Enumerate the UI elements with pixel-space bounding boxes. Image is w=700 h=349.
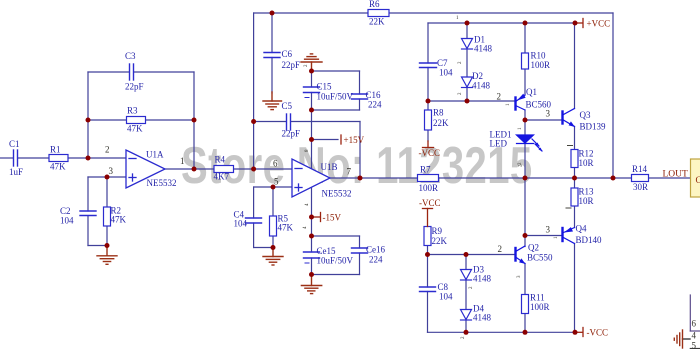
op-amp U1A [126, 150, 165, 188]
svg-text:224: 224 [369, 255, 383, 265]
svg-text:C3: C3 [125, 51, 136, 61]
svg-text:+15V: +15V [344, 135, 365, 145]
LED LED1 [517, 135, 543, 152]
diode D2 [462, 77, 473, 88]
wire Q2 emitter to R11 [524, 264, 526, 295]
capacitor C4 [246, 217, 262, 219]
svg-text:22pF: 22pF [125, 82, 144, 92]
wire Ce block bottom row [312, 274, 360, 276]
resistor R13 [571, 188, 578, 206]
ground G5 under Ce15 block [301, 275, 321, 294]
wire R11 to bottom rail [524, 314, 526, 333]
watermark [181, 140, 533, 192]
wire Q4 collector down [574, 244, 576, 333]
svg-text:R13: R13 [579, 187, 595, 197]
svg-text:224: 224 [368, 100, 382, 110]
wire C7 vertical [427, 23, 429, 63]
svg-text:1: 1 [518, 127, 523, 130]
svg-text:U1B: U1B [321, 162, 338, 172]
svg-text:22K: 22K [432, 236, 448, 246]
wire C2 branch vertical [87, 177, 89, 211]
svg-text:C1: C1 [9, 139, 20, 149]
svg-text:3: 3 [546, 225, 551, 235]
svg-text:R1: R1 [50, 145, 61, 155]
wire C5 to pin7 vertical [359, 122, 361, 179]
wire Q4 base row [525, 235, 562, 237]
svg-text:104: 104 [234, 219, 248, 229]
ground G4 above C15 inverted [301, 54, 322, 71]
wire R9 vertical [427, 246, 429, 255]
wire R13 to Q4 emitter [574, 206, 576, 228]
svg-text:6: 6 [692, 319, 697, 329]
wire feedback drop right [612, 13, 614, 178]
wire connector pin5 stub [690, 348, 700, 349]
ground G2 under C6 [263, 92, 282, 110]
svg-text:C5: C5 [282, 101, 293, 111]
power flag -VCC under R8 [423, 141, 434, 148]
svg-text:1: 1 [456, 16, 459, 21]
wire pin4 vertical [311, 188, 313, 236]
svg-text:10R: 10R [579, 196, 594, 206]
svg-text:NE5532: NE5532 [147, 178, 177, 188]
svg-text:NE5532: NE5532 [322, 189, 352, 199]
wire LED column [524, 120, 526, 135]
svg-text:100R: 100R [530, 302, 550, 312]
wire D3 D4 column [465, 255, 467, 270]
svg-text:104: 104 [439, 68, 453, 78]
wire connector box left edge [689, 295, 691, 331]
svg-text:BC550: BC550 [527, 253, 553, 263]
svg-text:C16: C16 [366, 90, 382, 100]
transistor Q1 [516, 94, 526, 110]
resistor R5 [270, 216, 277, 236]
wire R1 to U1A pin2 [68, 157, 126, 159]
resistor R6 [368, 10, 389, 17]
wire +VCC rail [428, 22, 575, 24]
svg-text:22pF: 22pF [282, 60, 301, 70]
svg-text:1: 1 [506, 103, 511, 106]
svg-text:4148: 4148 [473, 274, 492, 284]
capacitor Ce16 [352, 247, 368, 249]
svg-text:D2: D2 [472, 71, 483, 81]
svg-text:Q3: Q3 [580, 110, 591, 120]
svg-text:R9: R9 [432, 226, 443, 236]
svg-text:104: 104 [60, 216, 74, 226]
svg-text:30R: 30R [633, 182, 648, 192]
wire C15 vertical [311, 71, 313, 87]
transistor Q3 [563, 109, 575, 127]
svg-text:3: 3 [517, 275, 522, 278]
resistor R3 [127, 117, 146, 124]
resistor R1 [49, 155, 68, 162]
svg-text:2: 2 [461, 336, 466, 339]
svg-text:8: 8 [305, 149, 310, 152]
svg-text:BD139: BD139 [580, 122, 607, 132]
wire C4 branch vertical [253, 187, 255, 218]
resistor R9 [424, 227, 431, 246]
svg-text:5: 5 [274, 177, 279, 187]
wire connector box bottom edge [690, 330, 700, 332]
svg-text:47K: 47K [50, 162, 66, 172]
pin mark 2 Q4 emitter rotated [566, 207, 571, 209]
wire node A vertical to top rail [253, 13, 255, 169]
svg-text:4148: 4148 [473, 313, 492, 323]
wire pin3 row [88, 176, 126, 178]
svg-text:R4: R4 [215, 155, 226, 165]
wire D1 D2 column [466, 23, 468, 39]
capacitor C7 [420, 62, 437, 64]
svg-text:2: 2 [304, 64, 309, 67]
svg-text:7: 7 [347, 167, 352, 177]
connector J1 yellow box [691, 159, 700, 197]
svg-text:C6: C6 [282, 49, 293, 59]
wire lower bias row [428, 254, 515, 256]
wire C1 to R1 [18, 157, 49, 159]
svg-text:2: 2 [497, 92, 502, 102]
wire main mid row R7 to bases [439, 177, 691, 179]
wire input left [0, 157, 13, 159]
svg-text:+VCC: +VCC [587, 19, 611, 29]
svg-text:R10: R10 [531, 51, 547, 61]
wire U1B output pin7 [330, 177, 418, 179]
wire Ce15 vertical [311, 236, 313, 252]
resistor R4 [214, 166, 234, 173]
wire R12 R13 through node [574, 168, 576, 189]
wire upper bias row [428, 100, 515, 102]
ground G6 sideways bottom right [674, 330, 690, 348]
wire Ce block top row [312, 235, 360, 237]
svg-text:2: 2 [458, 92, 463, 95]
svg-text:4: 4 [692, 331, 697, 341]
wire R3 row right [146, 119, 195, 121]
wire C4 bottom to R5 node [254, 247, 273, 249]
svg-text:Ce15: Ce15 [317, 246, 336, 256]
op-amp U1B [292, 159, 330, 197]
wire R4 to U1B pin6 [234, 168, 293, 170]
svg-text:Q1: Q1 [526, 87, 537, 97]
svg-text:BD140: BD140 [576, 235, 603, 245]
svg-text:2: 2 [105, 145, 110, 155]
svg-text:4: 4 [303, 226, 308, 229]
svg-text:C2: C2 [60, 206, 71, 216]
wire Q1 collector down [524, 110, 526, 120]
wire C8 vertical [427, 255, 429, 288]
svg-text:3: 3 [109, 166, 114, 176]
wire feedback right vertical [193, 72, 195, 169]
svg-text:22pF: 22pF [282, 129, 301, 139]
svg-text:47K: 47K [127, 124, 143, 134]
wire C6 vertical [271, 13, 273, 53]
svg-text:C7: C7 [437, 58, 448, 68]
svg-text:R7: R7 [420, 165, 431, 175]
wire R2 vertical [106, 177, 108, 207]
svg-text:R14: R14 [632, 164, 648, 174]
svg-text:10R: 10R [579, 158, 594, 168]
wire C15 block top row [312, 70, 360, 72]
transistor Q2 [516, 246, 526, 264]
svg-text:C8: C8 [438, 282, 449, 292]
pin mark 2 Q3 emitter rotated [568, 145, 573, 147]
wire R8 vertical [427, 101, 429, 110]
diode D4 [461, 310, 472, 321]
wire top rail right [389, 12, 613, 14]
svg-text:-VCC: -VCC [419, 198, 441, 208]
capacitor C3 [129, 64, 131, 80]
svg-text:100R: 100R [531, 60, 551, 70]
capacitor C8 [420, 286, 436, 288]
svg-text:1uF: 1uF [9, 167, 23, 177]
wire pin8 vertical [311, 110, 313, 168]
resistor R8 [425, 110, 432, 130]
diode D3 [461, 270, 472, 281]
capacitor C1 [13, 150, 15, 166]
resistor R11 [522, 295, 529, 314]
svg-text:R3: R3 [127, 106, 138, 116]
resistor R2 [104, 207, 111, 226]
wire Q3 emitter to R12 [574, 127, 576, 150]
capacitor C15 [304, 86, 320, 88]
capacitor C16 [352, 93, 368, 95]
svg-text:R6: R6 [369, 0, 380, 9]
capacitor Ce15 [304, 251, 320, 253]
power flag -VCC above R9 [423, 209, 433, 227]
svg-text:2: 2 [458, 61, 463, 64]
svg-text:2: 2 [498, 244, 503, 254]
svg-text:C15: C15 [317, 82, 333, 92]
svg-text:104: 104 [439, 292, 453, 302]
svg-text:3: 3 [546, 109, 551, 119]
svg-text:-15V: -15V [323, 213, 342, 223]
wire C16 vertical [359, 71, 361, 94]
svg-text:22K: 22K [433, 118, 449, 128]
svg-text:LED: LED [490, 139, 508, 149]
svg-text:Q2: Q2 [528, 243, 539, 253]
wire C15 block bottom row [312, 109, 360, 111]
svg-text:4: 4 [305, 203, 310, 206]
wire Q3 base row [525, 119, 562, 121]
wire +15V tap [312, 139, 339, 141]
power flag +15V [340, 135, 342, 144]
svg-text:R11: R11 [530, 293, 545, 303]
wire U1A output [165, 168, 214, 170]
wire bottom rail [428, 331, 576, 333]
transistor Q4 [563, 227, 575, 243]
power flag -15V [312, 213, 321, 222]
svg-text:-VCC: -VCC [419, 148, 441, 158]
resistor R12 [571, 150, 578, 168]
svg-text:6: 6 [273, 159, 278, 169]
svg-text:Q4: Q4 [576, 224, 587, 234]
resistor R14 [632, 175, 649, 182]
wire R3 row left [88, 119, 127, 121]
wire Q2 collector up [524, 236, 526, 247]
svg-text:22K: 22K [369, 17, 385, 27]
svg-text:4148: 4148 [474, 44, 493, 54]
wire top rail left [254, 12, 368, 14]
svg-text:47K: 47K [278, 223, 294, 233]
capacitor C2 [80, 210, 96, 212]
wire C3 top row [88, 71, 129, 73]
svg-text:R12: R12 [579, 149, 594, 159]
resistor R7 [418, 175, 439, 182]
svg-text:10uF/50V: 10uF/50V [317, 92, 354, 102]
svg-text:C: C [696, 175, 700, 185]
svg-text:47K: 47K [111, 215, 127, 225]
wire Ce16 vertical [359, 236, 361, 248]
svg-text:2: 2 [469, 286, 474, 289]
svg-text:10uF/50V: 10uF/50V [317, 256, 354, 266]
wire bases vertical LED to Q2 [524, 178, 526, 236]
wire pin5 row [254, 186, 292, 188]
wire R5 vertical [272, 187, 274, 216]
wire R10 vertical [524, 23, 526, 53]
svg-text:100R: 100R [419, 183, 439, 193]
svg-text:4148: 4148 [472, 81, 491, 91]
power flag +VCC [575, 19, 583, 28]
svg-text:R8: R8 [433, 108, 444, 118]
wire C2 bottom to R2 node [88, 245, 107, 247]
svg-text:1: 1 [554, 236, 559, 239]
node dots [86, 11, 616, 335]
ground G3 under R5 C4 [263, 248, 283, 266]
svg-text:-VCC: -VCC [587, 328, 609, 338]
svg-text:4K7: 4K7 [214, 172, 230, 182]
svg-text:Ce16: Ce16 [366, 245, 385, 255]
svg-text:LOUT: LOUT [663, 170, 689, 180]
wire C5 row [254, 121, 286, 123]
diode D1 [462, 39, 473, 50]
resistor R10 [522, 53, 529, 69]
power flag -VCC bottom right [575, 328, 583, 337]
svg-text:U1A: U1A [146, 150, 164, 160]
wire feedback left vertical [87, 72, 89, 158]
svg-text:1: 1 [180, 156, 185, 166]
svg-text:5: 5 [692, 341, 697, 349]
wire Q3 collector up [574, 23, 576, 109]
capacitor C6 [264, 52, 280, 54]
ground G1 under R2 [97, 246, 117, 265]
capacitor C5 [286, 114, 288, 130]
